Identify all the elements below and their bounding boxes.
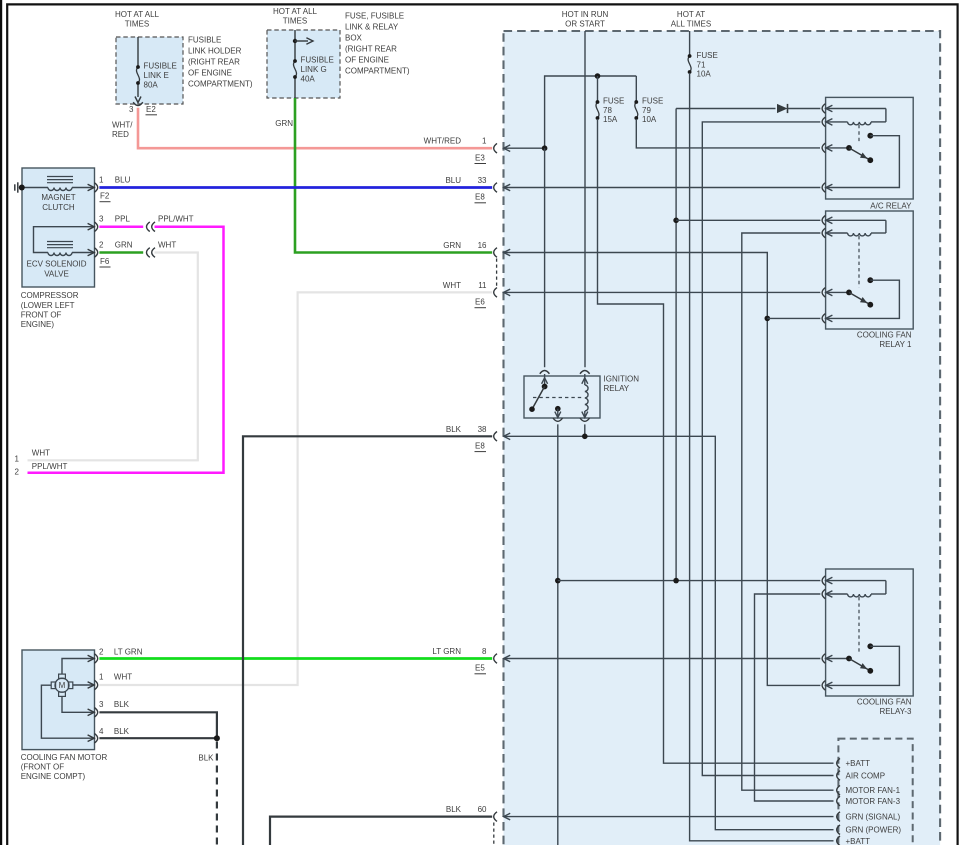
fusible link G element xyxy=(293,61,296,77)
fusible link E element xyxy=(136,67,139,83)
relay output wire xyxy=(826,280,900,318)
svg-text:2: 2 xyxy=(99,647,104,656)
svg-text:WHT/RED: WHT/RED xyxy=(424,137,462,146)
wire BLK row from ignition relay to GRN(POWER) xyxy=(504,436,834,829)
node: GRN row junction xyxy=(765,316,771,322)
svg-text:WHT: WHT xyxy=(32,449,50,458)
relay pin connector xyxy=(822,143,825,153)
svg-text:COMPARTMENT): COMPARTMENT) xyxy=(345,67,410,76)
wire: coil feed riser xyxy=(675,109,677,581)
svg-text:71: 71 xyxy=(697,61,706,70)
relay coil circuit xyxy=(826,219,886,221)
relay switch xyxy=(826,658,849,660)
wire: fusible link E drop xyxy=(137,37,139,66)
svg-text:FUSIBLE: FUSIBLE xyxy=(301,56,334,65)
wire BLK 60 from E7 xyxy=(270,817,492,845)
ignition relay switch xyxy=(542,384,548,390)
svg-text:BLK: BLK xyxy=(114,727,130,736)
wire PPL compressor pin3 xyxy=(99,225,143,228)
connector pin +BATT xyxy=(837,836,840,845)
svg-text:WHT: WHT xyxy=(158,240,176,249)
wire LT GRN row to cooling fan relay3 pin3 xyxy=(504,658,821,660)
wire: clutch coil to pin 1 xyxy=(72,187,93,189)
svg-text:(FRONT OF: (FRONT OF xyxy=(21,762,65,771)
wire WHT stub xyxy=(28,253,198,461)
wire: ignition relay coil ground to BLK row xyxy=(584,424,586,436)
ignition relay coil xyxy=(585,385,588,411)
svg-text:2: 2 xyxy=(15,467,20,476)
wire: relay1 pin2 to MOTOR FAN-1 xyxy=(742,233,834,790)
wire: WHT/RED arrow to bus xyxy=(504,147,545,149)
svg-text:HOT AT ALL: HOT AT ALL xyxy=(115,10,160,19)
dashed connector link below BLK 60 xyxy=(493,823,495,845)
ECV solenoid coil core xyxy=(47,241,73,243)
svg-text:PPL: PPL xyxy=(115,215,131,224)
svg-text:CLUTCH: CLUTCH xyxy=(42,203,75,212)
fuse fusible link & relay box xyxy=(267,30,340,98)
svg-text:OF ENGINE: OF ENGINE xyxy=(188,69,232,78)
svg-text:10A: 10A xyxy=(697,70,712,79)
fuse 78 xyxy=(596,102,599,118)
cooling fan motor box xyxy=(22,650,95,750)
svg-text:BOX: BOX xyxy=(345,34,363,43)
wire: fuse 78 drop xyxy=(597,76,599,101)
wire: fuse 78 output xyxy=(598,119,834,763)
svg-text:BLU: BLU xyxy=(445,176,461,185)
connector pin +BATT xyxy=(837,758,840,768)
svg-text:HOT AT ALL: HOT AT ALL xyxy=(273,7,318,16)
ignition relay box xyxy=(524,376,600,418)
node: relay3 feed junction B xyxy=(673,578,679,584)
svg-text:PPL/WHT: PPL/WHT xyxy=(158,215,194,224)
svg-text:RED: RED xyxy=(112,130,129,139)
node: BLK junction xyxy=(214,735,220,741)
fuse 71 xyxy=(688,56,691,72)
svg-text:LT GRN: LT GRN xyxy=(114,647,143,656)
relay pin connector xyxy=(822,576,825,586)
svg-text:2: 2 xyxy=(99,240,104,249)
fusible link holder box xyxy=(116,37,183,104)
svg-text:E8: E8 xyxy=(475,193,485,202)
svg-text:40A: 40A xyxy=(301,75,316,84)
svg-text:+BATT: +BATT xyxy=(846,759,871,768)
ignition relay actuator (dashed) xyxy=(533,397,583,399)
wire: hot in run feed xyxy=(584,31,586,367)
wire: bus down to ignition relay pin1 xyxy=(544,148,546,367)
wire BLK 38 from E8 xyxy=(243,436,492,845)
svg-text:COOLING FAN: COOLING FAN xyxy=(857,698,912,707)
relay coil circuit xyxy=(826,108,886,110)
node: WHT/RED bus junction xyxy=(542,145,548,151)
wire: clutch coil to case xyxy=(22,187,48,189)
svg-text:ENGINE): ENGINE) xyxy=(21,320,55,329)
svg-text:RELAY 1: RELAY 1 xyxy=(879,340,912,349)
svg-text:LT GRN: LT GRN xyxy=(432,647,461,656)
wire: diode feed to A/C relay pin1 xyxy=(676,108,775,110)
ignition relay pin2 connector xyxy=(580,371,590,374)
connector pin GRN (POWER) xyxy=(837,825,840,835)
motor pin arrows/connectors xyxy=(88,655,95,662)
svg-text:16: 16 xyxy=(478,241,487,250)
svg-text:RELAY-3: RELAY-3 xyxy=(879,707,912,716)
svg-text:WHT: WHT xyxy=(443,281,461,290)
svg-text:MAGNET: MAGNET xyxy=(41,193,75,202)
magnet clutch coil xyxy=(48,188,72,191)
wire GRN compressor pin2 xyxy=(99,251,143,254)
svg-text:FUSIBLE: FUSIBLE xyxy=(188,36,221,45)
node: relay1 coil tap xyxy=(673,218,679,224)
wire WHT row to cooling fan relay1 pin3 xyxy=(504,291,821,293)
ignition relay pin4 connector xyxy=(584,411,586,418)
svg-text:E2: E2 xyxy=(146,105,156,114)
relay pin connector xyxy=(822,216,825,226)
wire BLK motor pin4 xyxy=(99,737,216,739)
svg-text:FUSE: FUSE xyxy=(603,97,624,106)
svg-text:RELAY: RELAY xyxy=(604,384,630,393)
node: compressor case connection xyxy=(19,185,25,191)
svg-text:WHT: WHT xyxy=(114,673,132,682)
wire: ignition sw output riser xyxy=(557,424,559,845)
wire BLU row to A/C relay pin4 xyxy=(504,187,821,189)
svg-text:4: 4 xyxy=(99,727,104,736)
svg-text:COMPRESSOR: COMPRESSOR xyxy=(21,291,79,300)
svg-text:F2: F2 xyxy=(100,192,110,201)
relay pin connector xyxy=(822,104,825,114)
svg-text:COMPARTMENT): COMPARTMENT) xyxy=(188,80,253,89)
pin 3 arrow/connector xyxy=(88,223,95,230)
wire GRN from fusible link G xyxy=(295,98,492,253)
svg-text:HOT IN RUN: HOT IN RUN xyxy=(562,10,609,19)
svg-text:80A: 80A xyxy=(144,81,159,90)
svg-text:BLU: BLU xyxy=(115,176,131,185)
svg-text:LINK E: LINK E xyxy=(144,71,169,80)
relay pin connector xyxy=(822,183,825,193)
relay pin connector xyxy=(822,314,825,324)
compressor box xyxy=(22,168,95,287)
connector E2 arc xyxy=(133,102,143,105)
svg-text:COOLING FAN MOTOR: COOLING FAN MOTOR xyxy=(21,753,108,762)
svg-text:(RIGHT REAR: (RIGHT REAR xyxy=(345,45,397,54)
svg-text:IGNITION: IGNITION xyxy=(604,375,640,384)
diode xyxy=(777,104,788,113)
relay output wire xyxy=(826,136,900,188)
svg-text:10A: 10A xyxy=(642,115,657,124)
svg-text:ENGINE COMPT): ENGINE COMPT) xyxy=(21,772,86,781)
connector pin MOTOR FAN-3 xyxy=(837,796,840,806)
relay pin connector xyxy=(822,589,825,599)
svg-text:A/C RELAY: A/C RELAY xyxy=(870,201,912,210)
pin 1 arrow/connector xyxy=(88,184,95,191)
wire BLU compressor pin1 to E8 xyxy=(99,186,492,189)
wire: fuse 79 drop xyxy=(635,76,637,101)
svg-text:E3: E3 xyxy=(475,153,485,162)
relay pin connector xyxy=(822,681,825,691)
svg-text:MOTOR FAN-3: MOTOR FAN-3 xyxy=(846,797,901,806)
svg-text:1: 1 xyxy=(15,455,20,464)
svg-text:FUSIBLE: FUSIBLE xyxy=(144,62,177,71)
svg-text:E5: E5 xyxy=(475,664,485,673)
wire: branch to cooling fan relay1 pin4 xyxy=(767,317,820,319)
relay pin connector xyxy=(822,654,825,664)
svg-text:OF ENGINE: OF ENGINE xyxy=(345,56,389,65)
svg-text:BLK: BLK xyxy=(446,805,462,814)
svg-text:1: 1 xyxy=(99,673,104,682)
node: relay3 feed junction A xyxy=(555,578,561,584)
wire GRN row to relay pins 4 xyxy=(504,253,821,686)
relay output wire xyxy=(826,646,900,685)
page edge bar xyxy=(0,0,2,845)
wire GRN(SIGNAL) row xyxy=(504,816,834,818)
svg-text:FUSE, FUSIBLE: FUSE, FUSIBLE xyxy=(345,12,404,21)
relay switch xyxy=(826,147,849,149)
relay switch xyxy=(826,291,849,293)
connector pin AIR COMP xyxy=(837,771,840,781)
svg-text:GRN (SIGNAL): GRN (SIGNAL) xyxy=(846,813,901,822)
svg-text:ECV SOLENOID: ECV SOLENOID xyxy=(26,260,86,269)
svg-text:1: 1 xyxy=(99,176,104,185)
svg-text:(LOWER LEFT: (LOWER LEFT xyxy=(21,301,75,310)
svg-text:BLK: BLK xyxy=(198,754,214,763)
ignition relay pin3 connector xyxy=(557,409,559,418)
pin 2 arrow/connector xyxy=(88,249,95,256)
wire: to cooling fan relay1 pin1 xyxy=(676,219,820,221)
motor wire to pin4 xyxy=(41,685,93,738)
svg-text:VALVE: VALVE xyxy=(44,270,69,279)
wire BLK dashed to ground xyxy=(216,742,218,845)
svg-text:1: 1 xyxy=(482,137,487,146)
dashed connector link GRN/WHT rows xyxy=(496,259,498,288)
svg-text:LINK HOLDER: LINK HOLDER xyxy=(188,47,242,56)
ECV solenoid coil xyxy=(48,253,72,256)
svg-text:COOLING FAN: COOLING FAN xyxy=(857,331,912,340)
wire PPL/WHT xyxy=(28,227,224,473)
relay pin connector xyxy=(822,228,825,238)
svg-text:78: 78 xyxy=(603,106,612,115)
motor wire to pin3 xyxy=(62,696,93,712)
svg-text:OR START: OR START xyxy=(565,20,605,29)
motor wire to pin1 xyxy=(73,684,93,686)
svg-text:15A: 15A xyxy=(603,115,618,124)
connector pin MOTOR FAN-1 xyxy=(837,785,840,795)
branch arrow right xyxy=(293,39,297,43)
fuse 79 xyxy=(635,102,638,118)
svg-text:E8: E8 xyxy=(475,441,485,450)
relay actuator (dashed) xyxy=(858,125,860,143)
relay actuator (dashed) xyxy=(858,597,860,654)
svg-text:M: M xyxy=(59,681,66,690)
svg-text:WHT/: WHT/ xyxy=(112,121,133,130)
wire: fuse 79 output to A/C relay pin3 xyxy=(636,119,820,148)
relay pin connector xyxy=(822,117,825,127)
svg-text:60: 60 xyxy=(478,805,487,814)
svg-text:E6: E6 xyxy=(475,298,485,307)
inline connector PPL xyxy=(147,222,150,232)
arrow into connector E2 xyxy=(135,97,141,103)
svg-text:F6: F6 xyxy=(100,257,110,266)
wire LT GRN cooling fan motor pin2 to E5 xyxy=(99,657,492,660)
wire: fuse 71 output to +BATT xyxy=(690,73,834,841)
svg-text:FUSE: FUSE xyxy=(697,51,718,60)
inline connector GRN/WHT xyxy=(147,248,150,258)
svg-text:FRONT OF: FRONT OF xyxy=(21,310,62,319)
svg-text:GRN: GRN xyxy=(443,241,461,250)
motor symbol xyxy=(55,678,69,692)
wire WHT/RED from fusible link E xyxy=(138,108,492,148)
svg-text:3: 3 xyxy=(129,105,134,114)
svg-text:AIR COMP: AIR COMP xyxy=(846,772,886,781)
relay actuator (dashed) xyxy=(858,236,860,287)
svg-text:MOTOR FAN-1: MOTOR FAN-1 xyxy=(846,786,901,795)
svg-text:TIMES: TIMES xyxy=(125,20,149,29)
svg-text:38: 38 xyxy=(478,425,487,434)
connector pin GRN (SIGNAL) xyxy=(837,812,840,822)
svg-text:PPL/WHT: PPL/WHT xyxy=(32,462,68,471)
svg-text:GRN: GRN xyxy=(115,240,133,249)
svg-text:33: 33 xyxy=(478,176,487,185)
magnet clutch coil core xyxy=(47,176,73,178)
wire: relay3 pin2 to MOTOR FAN-3 xyxy=(755,594,834,801)
node: fuse 78 tap xyxy=(595,73,601,79)
ignition relay pin1 connector xyxy=(540,371,550,374)
svg-text:LINK G: LINK G xyxy=(301,65,327,74)
svg-text:HOT AT: HOT AT xyxy=(677,10,705,19)
relay pin connector xyxy=(822,288,825,298)
ECV internal wire xyxy=(34,227,94,253)
wire: A/C relay pin2 to AIR COMP xyxy=(702,122,833,776)
svg-text:3: 3 xyxy=(99,700,104,709)
wire BLK motor pin3 xyxy=(99,712,216,738)
svg-text:8: 8 xyxy=(482,647,487,656)
svg-text:GRN (POWER): GRN (POWER) xyxy=(846,826,902,835)
wire: relay feed row to relay3 pin1 xyxy=(558,580,821,582)
svg-text:79: 79 xyxy=(642,106,651,115)
motor wire to pin2 xyxy=(62,659,93,675)
wire: fusible link G drop xyxy=(294,30,296,60)
svg-text:BLK: BLK xyxy=(114,700,130,709)
engine connector box (dashed) xyxy=(838,739,912,845)
relay coil circuit xyxy=(826,580,886,582)
svg-text:TIMES: TIMES xyxy=(283,17,307,26)
node: BLK row junction xyxy=(582,434,588,440)
wire: hot at all times feed xyxy=(689,31,691,55)
wire: fused WHT/RED bus xyxy=(545,76,637,148)
svg-text:LINK & RELAY: LINK & RELAY xyxy=(345,23,399,32)
fuse & relay block (dashed outline) xyxy=(504,31,941,845)
relay box xyxy=(826,569,914,696)
wire WHT cooling fan motor pin1 to E6 xyxy=(99,292,492,685)
svg-text:(RIGHT REAR: (RIGHT REAR xyxy=(188,58,240,67)
svg-text:FUSE: FUSE xyxy=(642,97,663,106)
svg-text:BLK: BLK xyxy=(446,425,462,434)
relay box xyxy=(826,211,914,329)
svg-text:GRN: GRN xyxy=(275,119,293,128)
svg-text:ALL TIMES: ALL TIMES xyxy=(671,20,711,29)
svg-text:+BATT: +BATT xyxy=(846,837,871,845)
svg-text:3: 3 xyxy=(99,215,104,224)
relay box xyxy=(826,97,914,199)
svg-text:11: 11 xyxy=(478,281,487,290)
